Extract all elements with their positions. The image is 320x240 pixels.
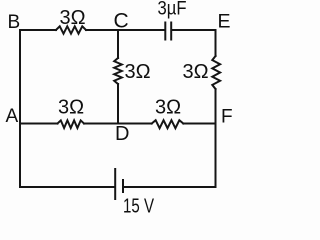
wire C to capacitor bbox=[118, 29, 165, 31]
wire F to bottom-right corner bbox=[215, 124, 217, 188]
resistor R2 (C-D vertical) bbox=[114, 58, 122, 84]
battery BT1 short plate bbox=[122, 180, 124, 192]
capacitor C1 left plate bbox=[164, 23, 166, 40]
resistor R4 (A-D) bbox=[58, 120, 85, 128]
svg-text:15 V: 15 V bbox=[123, 196, 154, 216]
wire D to R5 bbox=[118, 123, 152, 125]
svg-text:3Ω: 3Ω bbox=[125, 61, 151, 83]
wire R3 to F bbox=[215, 89, 217, 124]
wire B to R1 bbox=[20, 29, 56, 31]
svg-text:3µF: 3µF bbox=[158, 0, 187, 20]
svg-text:C: C bbox=[114, 10, 129, 33]
capacitor C1 right plate bbox=[170, 23, 172, 40]
svg-text:F: F bbox=[221, 107, 233, 128]
wire B to A (left vertical) bbox=[19, 30, 21, 124]
svg-text:3Ω: 3Ω bbox=[155, 97, 181, 119]
resistor R3 (E-F vertical) bbox=[212, 56, 220, 89]
svg-text:E: E bbox=[218, 11, 231, 33]
wire bottom-left to battery bbox=[20, 186, 114, 188]
wire capacitor to E bbox=[172, 29, 216, 31]
resistor R5 (D-F) bbox=[152, 120, 184, 128]
svg-text:3Ω: 3Ω bbox=[58, 97, 84, 119]
battery BT1 long plate bbox=[114, 169, 116, 199]
svg-text:3Ω: 3Ω bbox=[183, 61, 209, 83]
wire E to R3 bbox=[215, 30, 217, 56]
wire R2 to D bbox=[117, 84, 119, 124]
svg-text:3Ω: 3Ω bbox=[60, 7, 86, 29]
wire R1 to C bbox=[86, 29, 118, 31]
svg-text:B: B bbox=[8, 12, 21, 33]
svg-text:A: A bbox=[6, 106, 19, 127]
wire C to R2 bbox=[117, 30, 119, 58]
wire A to R4 bbox=[20, 123, 58, 125]
svg-text:D: D bbox=[115, 123, 129, 145]
wire A to bottom-left corner bbox=[19, 124, 21, 188]
wire R4 to D bbox=[84, 123, 118, 125]
wire R5 to F bbox=[183, 123, 215, 125]
wire battery to bottom-right bbox=[124, 186, 216, 188]
resistor R1 (B-C) bbox=[56, 26, 86, 33]
